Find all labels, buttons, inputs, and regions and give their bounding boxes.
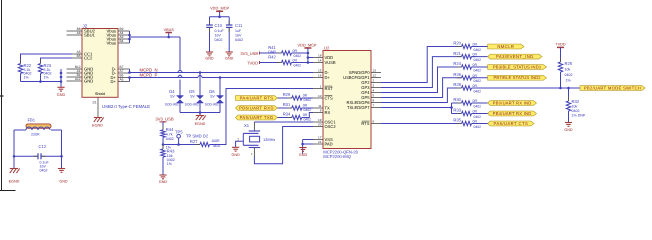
chip U2 pin 6 RTS	[361, 119, 381, 126]
connector label	[102, 104, 150, 109]
wire cap rail	[210, 16, 230, 18]
connector pin B1 GND	[67, 73, 94, 80]
chip U2 pin 16 D+	[313, 73, 330, 80]
wire to VDD pin	[308, 57, 313, 59]
resistor R21	[453, 51, 481, 62]
svg-text:PA4/UART RTS: PA4/UART RTS	[240, 95, 274, 100]
svg-text:0R: 0R	[473, 120, 478, 124]
svg-text:OSC2: OSC2	[325, 124, 337, 129]
resistor R32	[566, 97, 586, 118]
connector pin A6 D+	[111, 77, 130, 84]
svg-text:GND: GND	[231, 153, 240, 157]
svg-text:16: 16	[318, 73, 322, 77]
svg-text:TXLED/GP7: TXLED/GP7	[347, 105, 370, 110]
svg-text:DNP: DNP	[268, 50, 276, 54]
svg-text:A6: A6	[120, 77, 124, 81]
svg-text:21: 21	[318, 140, 322, 144]
port PA4/UART RTS	[236, 95, 278, 100]
chip U2 pin 15 D-	[313, 68, 329, 75]
power VDD_MCP right	[297, 43, 316, 54]
ground GND under connector	[57, 80, 66, 97]
port PB7/BLE STATUS IND2	[488, 75, 547, 80]
power VBUS	[164, 28, 175, 38]
wire tie to R33	[452, 113, 462, 115]
wire R31 to TX	[302, 107, 313, 109]
resistor R44	[161, 125, 174, 149]
svg-text:SOD-882: SOD-882	[205, 103, 219, 107]
shield EGND	[92, 118, 104, 128]
wire R35 out	[472, 123, 488, 125]
chip U2 pin 2 GP2	[361, 78, 381, 85]
wire GP to R24	[381, 67, 462, 93]
wire RTS to R35	[381, 123, 462, 125]
svg-text:TVDD: TVDD	[555, 42, 565, 46]
wire vbus rail	[128, 34, 180, 41]
resistor R29	[283, 92, 311, 102]
wire R24 out	[472, 66, 488, 68]
node MCPD_N	[140, 67, 158, 72]
chip U2 pin 17 VSS	[313, 135, 333, 142]
resistor R31	[283, 102, 311, 112]
svg-text:100R: 100R	[211, 139, 220, 143]
svg-text:1%: 1%	[167, 162, 173, 166]
svg-text:B5: B5	[77, 54, 81, 58]
wire rst node	[163, 143, 200, 146]
svg-text:R42: R42	[268, 55, 276, 60]
svg-text:0402: 0402	[215, 38, 223, 42]
svg-text:GND: GND	[225, 56, 234, 60]
node 3V3_USB rst	[155, 116, 173, 122]
wire R41 out	[292, 52, 308, 54]
svg-text:VBUS: VBUS	[164, 28, 175, 32]
svg-text:R44: R44	[166, 127, 174, 132]
svg-text:6: 6	[373, 119, 375, 123]
svg-text:0402: 0402	[294, 64, 302, 68]
svg-text:7: 7	[373, 103, 375, 107]
svg-text:PAD: PAD	[325, 142, 333, 147]
svg-text:0R: 0R	[303, 93, 308, 97]
svg-text:PB7/BLE STATUS IND2: PB7/BLE STATUS IND2	[493, 75, 541, 80]
svg-text:R33: R33	[453, 108, 461, 113]
svg-text:R25: R25	[565, 61, 573, 66]
svg-text:18: 18	[318, 53, 322, 57]
connector pin A4 Vbus	[106, 31, 129, 38]
connector pin A1 GND	[67, 69, 94, 76]
node MCPD_P	[140, 72, 158, 77]
svg-text:20: 20	[318, 122, 322, 126]
sheet border	[0, 0, 16, 191]
svg-text:16V: 16V	[215, 33, 222, 37]
wire CC1 to R22	[21, 54, 73, 64]
wire OSC1	[254, 122, 313, 131]
port PB3/BLE_STATUS IND1	[488, 64, 547, 69]
wire to R34	[278, 117, 292, 119]
chip U2 pin 8 RXLED/GP6	[347, 98, 381, 105]
wire D5 up	[199, 73, 201, 96]
wire R26 out	[472, 77, 488, 79]
wire GP7 tie	[381, 103, 453, 114]
svg-text:A12: A12	[75, 77, 81, 81]
resistor R30	[453, 97, 481, 108]
connector pin B12 GND	[67, 65, 94, 72]
port NMCLR	[488, 44, 524, 49]
wire fb1 right	[60, 130, 63, 169]
wire OSC2 return	[254, 127, 313, 164]
svg-text:0R: 0R	[473, 99, 478, 103]
svg-text:0402: 0402	[166, 137, 174, 141]
connector pin B4 Vbus	[106, 39, 129, 46]
wire vdd tie	[307, 52, 310, 64]
ferrite bead FB1	[26, 117, 51, 136]
ground GND R43	[159, 175, 168, 184]
connector pin B5 CC2	[67, 54, 94, 61]
svg-text:1% DNP: 1% DNP	[572, 114, 586, 118]
svg-text:4: 4	[373, 88, 375, 92]
svg-text:0R: 0R	[293, 59, 298, 63]
svg-text:CC2: CC2	[84, 56, 93, 61]
svg-text:0R: 0R	[473, 43, 478, 47]
svg-text:R27: R27	[190, 139, 198, 144]
svg-text:SOD-882: SOD-882	[165, 103, 179, 107]
svg-text:1%: 1%	[44, 75, 50, 79]
connector pin A8 SBU1	[67, 31, 96, 38]
svg-text:R43: R43	[167, 148, 175, 153]
svg-text:TVDD: TVDD	[247, 60, 258, 65]
port PA3/EVENT_IND	[488, 54, 542, 59]
svg-text:GND: GND	[299, 153, 308, 157]
svg-text:GND: GND	[57, 93, 66, 97]
svg-text:A8: A8	[77, 31, 81, 35]
wire vbus tie	[129, 31, 131, 43]
wire connector gnd tie	[60, 69, 63, 82]
svg-text:MCPD_P: MCPD_P	[140, 72, 158, 77]
svg-text:3: 3	[373, 83, 375, 87]
wire R34 to RX	[302, 113, 313, 118]
wire c12 rail	[14, 155, 62, 157]
wire R28 long	[472, 87, 581, 90]
svg-text:USB2.0 Type-C FEMALE: USB2.0 Type-C FEMALE	[102, 104, 150, 109]
connector pin A9 Vbus	[106, 35, 129, 42]
capacitor C11	[226, 17, 243, 52]
power VDD_MCP left	[210, 6, 229, 18]
wire fb1 left	[13, 130, 16, 169]
svg-text:R21: R21	[453, 51, 461, 56]
svg-text:0R: 0R	[473, 53, 478, 57]
svg-text:0R: 0R	[303, 113, 308, 117]
capacitor C12	[34, 144, 50, 172]
svg-text:PA5/UART TXD: PA5/UART TXD	[240, 115, 274, 120]
wire vbus down to D4	[178, 37, 182, 96]
ground EGND diodes	[195, 113, 206, 127]
svg-text:FB1: FB1	[28, 117, 36, 122]
svg-text:4.7k: 4.7k	[166, 133, 173, 137]
power TVDD	[555, 42, 565, 62]
svg-text:10k: 10k	[572, 105, 578, 109]
svg-text:1%: 1%	[566, 79, 572, 83]
connector pin B6 D+	[111, 73, 130, 80]
wire tie to R30	[452, 102, 462, 104]
svg-text:R30: R30	[453, 97, 461, 102]
svg-text:R28: R28	[453, 82, 461, 87]
connector shield pin S1	[92, 97, 98, 117]
resistor R22	[18, 59, 31, 79]
node 3V3_USB	[240, 51, 259, 56]
port PB6/UART RXD	[236, 105, 278, 110]
svg-text:11: 11	[318, 104, 321, 108]
svg-text:MCP2200-IMQ: MCP2200-IMQ	[323, 154, 351, 159]
svg-text:GND: GND	[84, 79, 93, 84]
svg-text:RTS: RTS	[361, 121, 369, 126]
svg-text:0402: 0402	[40, 168, 48, 172]
wire D6 up	[219, 78, 221, 96]
port PB2/UART MODE SWITCH	[580, 85, 645, 90]
svg-text:5: 5	[373, 93, 375, 97]
svg-text:0402: 0402	[474, 58, 482, 62]
svg-text:S1: S1	[92, 101, 96, 105]
chip U2 pin 13 SPND/GP0	[349, 68, 381, 75]
wire fb1 rail	[14, 129, 62, 131]
svg-text:PB4/UART RX IND: PB4/UART RX IND	[493, 111, 532, 116]
svg-text:0R: 0R	[473, 74, 478, 78]
svg-text:0.1uF: 0.1uF	[215, 29, 225, 33]
chip U2 pin 11 TX	[313, 104, 330, 111]
ground EGND fb1	[9, 169, 20, 184]
svg-text:1: 1	[320, 84, 322, 88]
wire TVDD to R42	[260, 62, 282, 64]
svg-text:CTS: CTS	[325, 96, 333, 101]
svg-text:PB0/UART RX IND: PB0/UART RX IND	[493, 100, 532, 105]
chip U2 pin 3 GP3	[361, 83, 381, 90]
svg-text:0R: 0R	[473, 110, 478, 114]
wire R23 down	[40, 74, 42, 82]
svg-text:0402: 0402	[474, 79, 482, 83]
svg-text:RST: RST	[325, 86, 334, 91]
svg-text:0R: 0R	[473, 63, 478, 67]
wire GP to R21	[381, 57, 462, 88]
svg-text:0402: 0402	[294, 54, 302, 58]
svg-text:R26: R26	[453, 72, 461, 77]
crystal X1	[237, 123, 275, 156]
resistor R24	[453, 61, 481, 72]
svg-text:5V: 5V	[170, 94, 175, 98]
wire R29 to CTS	[302, 97, 313, 99]
svg-text:R32: R32	[572, 99, 580, 104]
svg-text:GND: GND	[205, 56, 214, 60]
connector J2 body	[82, 23, 118, 97]
ground GND R32	[564, 123, 573, 132]
svg-text:17: 17	[318, 135, 322, 139]
wire R21 out	[472, 56, 488, 58]
wire CC2 to R23	[41, 58, 73, 64]
svg-text:D4: D4	[169, 89, 175, 94]
svg-text:10: 10	[318, 94, 322, 98]
chip U2 pin 21 PAD	[313, 140, 333, 147]
svg-text:B4: B4	[120, 39, 124, 43]
svg-text:14: 14	[318, 58, 322, 62]
svg-text:5V: 5V	[210, 94, 215, 98]
wire GP to R20	[381, 47, 462, 83]
svg-text:15: 15	[318, 68, 322, 72]
wire R44 down	[162, 137, 165, 149]
svg-text:NMCLR: NMCLR	[497, 44, 514, 49]
wire R42 out	[292, 62, 308, 64]
svg-text:5V: 5V	[190, 94, 195, 98]
chip U2 pin 4 GP4	[361, 88, 381, 95]
wire crystal case gnd	[236, 141, 244, 147]
svg-text:U2: U2	[324, 45, 330, 50]
chip U2 pin 18 VDD	[313, 53, 333, 60]
svg-text:13: 13	[373, 68, 377, 72]
wire GP to R28	[381, 88, 462, 103]
resistor R26	[453, 72, 481, 83]
wire 3v3 to R44	[162, 122, 164, 130]
svg-text:0402: 0402	[565, 73, 573, 77]
svg-text:R35: R35	[453, 118, 461, 123]
connector pin B9 Vbus	[106, 27, 129, 34]
wire R30 out	[472, 102, 488, 104]
diode D6	[205, 89, 224, 107]
diode D4	[165, 89, 184, 107]
chip U2 pin 9 RX	[313, 108, 330, 115]
svg-text:D6: D6	[209, 89, 215, 94]
svg-text:C11: C11	[235, 23, 243, 28]
svg-text:0402: 0402	[304, 118, 312, 122]
svg-text:12MHz: 12MHz	[263, 137, 275, 142]
ground GND crystal	[231, 147, 240, 157]
svg-text:R34: R34	[283, 111, 291, 116]
connector pin A12 GND	[67, 77, 94, 84]
chip U2 pin 14 VUSB	[313, 58, 336, 65]
svg-text:SOD-882: SOD-882	[185, 103, 199, 107]
port PB0/UART TX IND	[488, 100, 537, 105]
connector pin A7 D-	[112, 69, 130, 76]
wire VSS PAD	[301, 140, 313, 154]
svg-text:VDD_MCP: VDD_MCP	[210, 6, 229, 11]
svg-text:PB6/UART RXD: PB6/UART RXD	[239, 105, 274, 110]
svg-text:R31: R31	[283, 102, 291, 107]
ground GND C10	[205, 52, 214, 60]
svg-text:0402: 0402	[474, 48, 482, 52]
svg-text:GND: GND	[159, 180, 168, 184]
resistor R27	[190, 139, 221, 148]
ground GND C11	[225, 52, 234, 60]
svg-text:19: 19	[318, 118, 322, 122]
port PA6/UART CTS	[488, 121, 534, 126]
wire to R29	[278, 97, 292, 99]
connector pin B7 D-	[112, 65, 130, 72]
wire MCPD_P	[128, 76, 313, 79]
testpoint TP5	[175, 129, 209, 144]
svg-text:0402: 0402	[304, 98, 312, 102]
svg-text:0R: 0R	[473, 84, 478, 88]
chip U2 pin 7 TXLED/GP7	[347, 103, 381, 110]
svg-text:C12: C12	[39, 144, 47, 149]
svg-text:0402: 0402	[474, 115, 482, 119]
chip U2 pin 1 RST	[313, 84, 333, 91]
svg-text:2: 2	[373, 78, 375, 82]
svg-text:PA6/UART CTS: PA6/UART CTS	[494, 121, 529, 126]
wire R22 down	[20, 74, 22, 82]
svg-text:EGND: EGND	[92, 123, 103, 127]
chip U2 pin 12 USBCFG/GP1	[343, 73, 381, 80]
wire MCPD_N	[128, 71, 313, 74]
svg-text:SBU1: SBU1	[84, 33, 96, 38]
svg-text:1uF: 1uF	[235, 29, 242, 33]
svg-text:0402: 0402	[235, 38, 243, 42]
wire GP to R26	[381, 78, 462, 98]
wire R33 out	[472, 113, 488, 115]
wire 3V3 to R41	[260, 52, 282, 54]
svg-text:VUSB: VUSB	[325, 60, 336, 65]
resistor R23	[38, 59, 51, 79]
svg-text:Vbus: Vbus	[106, 41, 116, 46]
svg-text:0402: 0402	[474, 68, 482, 72]
port PB4/UART RX IND	[488, 111, 537, 116]
svg-text:GND: GND	[564, 128, 573, 132]
wire R32 up	[568, 88, 570, 101]
svg-text:R24: R24	[453, 61, 461, 66]
svg-text:Shield: Shield	[95, 92, 105, 96]
svg-text:10k: 10k	[565, 68, 571, 72]
svg-text:16V: 16V	[235, 33, 242, 37]
svg-text:C10: C10	[215, 23, 223, 28]
svg-text:3V3_USB: 3V3_USB	[240, 51, 258, 56]
resistor R20	[453, 41, 481, 52]
node TVDD mid	[247, 60, 259, 65]
svg-text:0402: 0402	[474, 89, 482, 93]
resistor R43	[161, 145, 175, 166]
svg-text:220R: 220R	[31, 132, 40, 136]
svg-text:TP5: TP5	[175, 129, 183, 134]
capacitor C10	[206, 17, 224, 52]
resistor R34	[283, 111, 311, 121]
chip U2 pin 20 OSC2	[313, 122, 336, 129]
connector pin A5 CC1	[67, 50, 94, 57]
svg-text:PB2/UART MODE SWITCH: PB2/UART MODE SWITCH	[584, 85, 641, 90]
diode D5	[185, 89, 204, 107]
resistor R28	[453, 82, 481, 93]
svg-text:GND: GND	[59, 179, 68, 183]
svg-text:RX: RX	[325, 110, 331, 115]
wire to R31	[278, 107, 292, 109]
wire R27 to RST	[210, 89, 314, 145]
resistor R41	[268, 45, 301, 58]
svg-text:R20: R20	[453, 41, 461, 46]
connector pin B8 SBU2	[67, 27, 96, 34]
svg-text:0R: 0R	[303, 103, 308, 107]
port PA5/UART TXD	[236, 115, 278, 120]
resistor R35	[453, 118, 481, 129]
svg-text:8: 8	[373, 98, 375, 102]
chip U2 pin 19 OSC1	[313, 118, 336, 125]
svg-text:0402: 0402	[474, 104, 482, 108]
svg-text:D5: D5	[189, 89, 195, 94]
svg-text:D+: D+	[325, 75, 331, 80]
wire to VUSB pin	[308, 62, 313, 64]
chip U2 pin 5 GP5	[361, 93, 381, 100]
svg-text:J2: J2	[83, 23, 88, 28]
svg-text:PA3/EVENT_IND: PA3/EVENT_IND	[496, 54, 534, 59]
svg-text:VDD_MCP: VDD_MCP	[297, 43, 316, 48]
svg-text:A7: A7	[120, 69, 124, 73]
wire R20 out	[472, 46, 488, 48]
wire tvs bus	[180, 103, 220, 114]
svg-text:X1: X1	[244, 123, 250, 128]
svg-text:12: 12	[373, 73, 377, 77]
svg-text:0402: 0402	[474, 125, 482, 129]
svg-text:D+: D+	[111, 79, 117, 84]
wire R32 down	[568, 111, 570, 123]
